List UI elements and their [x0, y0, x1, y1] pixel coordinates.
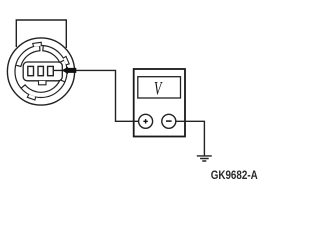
voltmeter display: [138, 77, 181, 98]
minus sign: [166, 120, 172, 122]
plus terminal: [139, 114, 153, 128]
voltmeter U1 body: [134, 69, 185, 137]
plus sign: [143, 119, 147, 123]
probe arrow into pin 3: [62, 67, 77, 74]
housing bottom tab: [39, 81, 47, 85]
pin 3: [48, 66, 54, 75]
pin 1: [28, 66, 34, 75]
bayonet arc segment C (bottom): [21, 80, 65, 93]
svg-text:GK9682-A: GK9682-A: [211, 169, 258, 182]
notch tab at top (segment A end): [33, 42, 42, 46]
connector inner circle: [15, 46, 67, 98]
ground symbol: [197, 156, 212, 161]
bayonet arc segment B (top-right): [43, 46, 65, 63]
pin 2: [38, 66, 43, 75]
connector tab (keyway housing): [16, 20, 66, 48]
notch tab at lower left (segment C): [27, 94, 35, 100]
wire stub to plus terminal inside meter: [134, 120, 140, 122]
wire: minus terminal to ground: [176, 121, 205, 155]
notch tab at upper right (segment B end): [63, 56, 69, 64]
minus terminal: [162, 114, 176, 128]
bayonet arc segment A (top-left): [16, 46, 40, 67]
wire: connector to meter plus terminal: [54, 70, 139, 121]
connector outer circle: [7, 38, 74, 105]
pin housing: [23, 62, 62, 81]
